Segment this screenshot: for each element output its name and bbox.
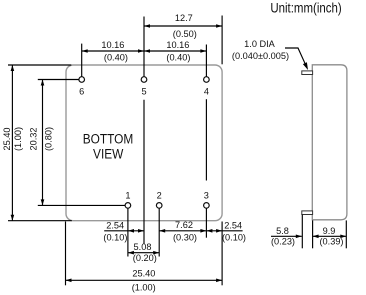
extension line pin2 bottom — [158, 208, 160, 256]
svg-text:2.54: 2.54 — [224, 221, 242, 231]
dimension 20.32 left side — [28, 80, 53, 206]
svg-text:(0.40): (0.40) — [104, 53, 128, 63]
pin 4 — [204, 77, 210, 97]
unit note — [270, 1, 341, 16]
dimension 12.7 top — [144, 13, 222, 39]
svg-text:20.32: 20.32 — [28, 128, 38, 151]
svg-text:10.16: 10.16 — [166, 40, 189, 50]
svg-text:3: 3 — [204, 190, 209, 200]
pin 1 — [125, 190, 131, 208]
svg-text:(1.00): (1.00) — [13, 127, 23, 151]
body outline bottom view — [66, 65, 222, 221]
label BOTTOM VIEW — [83, 131, 134, 162]
label 1.0 DIA with leader — [232, 39, 308, 70]
dimension 25.40 bottom — [66, 269, 223, 293]
extension line pin4 top — [205, 45, 207, 77]
pin 6 — [79, 77, 85, 97]
extension line pin1 left horizontal — [38, 204, 125, 206]
svg-text:25.40: 25.40 — [2, 128, 12, 151]
svg-text:25.40: 25.40 — [132, 269, 155, 279]
svg-text:(0.50): (0.50) — [173, 29, 197, 39]
svg-text:6: 6 — [79, 86, 84, 96]
svg-text:(0.40): (0.40) — [166, 53, 190, 63]
svg-text:(0.30): (0.30) — [173, 233, 197, 243]
dimension 7.62 bottom — [159, 220, 206, 243]
extension line pin3 bottom — [205, 208, 207, 238]
body outline side view — [312, 65, 347, 220]
svg-text:5: 5 — [141, 86, 146, 96]
svg-text:Unit:mm(inch): Unit:mm(inch) — [270, 1, 341, 16]
extension line body right bottom — [221, 222, 223, 286]
pin tab top side view — [302, 71, 313, 75]
svg-text:(0.10): (0.10) — [103, 233, 127, 243]
svg-text:(0.20): (0.20) — [133, 253, 157, 263]
svg-text:9.9: 9.9 — [323, 226, 336, 236]
svg-text:(0.040±0.005): (0.040±0.005) — [232, 51, 289, 61]
extension line pin1 bottom — [127, 208, 129, 256]
extension line body right top — [221, 16, 223, 65]
dimension 25.40 left side — [2, 65, 23, 221]
extension line body bottom left horizontal — [8, 220, 72, 222]
svg-text:VIEW: VIEW — [93, 146, 123, 162]
extension line side body left bottom — [312, 220, 314, 248]
dimension 10.16 left top — [82, 40, 144, 62]
svg-text:BOTTOM: BOTTOM — [83, 131, 134, 147]
dimension 10.16 right top — [144, 40, 206, 62]
wire pin4 to pin3 vertical — [205, 99, 207, 180]
svg-text:(1.00): (1.00) — [132, 283, 156, 293]
dimension 5.8 side — [271, 226, 302, 246]
pin 2 — [156, 190, 162, 208]
extension line side pin left — [301, 215, 303, 249]
extension line body left bottom — [65, 222, 67, 286]
svg-text:1: 1 — [125, 190, 130, 200]
pin 3 — [204, 190, 210, 208]
svg-text:10.16: 10.16 — [101, 40, 124, 50]
dimension 2.54 bottom left — [103, 220, 144, 242]
svg-text:1.0 DIA: 1.0 DIA — [244, 39, 276, 49]
wire pin5 center vertical — [143, 100, 145, 244]
svg-text:(0.10): (0.10) — [222, 232, 246, 242]
pin tab bottom side view — [302, 211, 313, 215]
svg-text:2.54: 2.54 — [106, 220, 124, 230]
svg-text:7.62: 7.62 — [175, 220, 193, 230]
extension line pin5 top — [143, 17, 145, 77]
extension line side body right bottom — [345, 220, 347, 248]
svg-text:2: 2 — [157, 190, 162, 200]
pin 5 — [141, 77, 147, 97]
dimension 9.9 side — [313, 226, 347, 246]
dimension 5.08 bottom — [128, 242, 159, 263]
svg-text:12.7: 12.7 — [175, 13, 193, 23]
extension line pin6 left horizontal — [38, 79, 79, 81]
svg-text:(0.39): (0.39) — [319, 237, 343, 247]
extension line pin6 top — [81, 44, 83, 77]
dimension 2.54 bottom right — [206, 221, 246, 243]
svg-text:5.8: 5.8 — [276, 226, 289, 236]
svg-text:5.08: 5.08 — [134, 242, 152, 252]
extension line body top left horizontal — [8, 64, 71, 66]
svg-text:(0.23): (0.23) — [271, 237, 295, 247]
svg-text:4: 4 — [204, 86, 209, 96]
svg-text:(0.80): (0.80) — [43, 127, 53, 151]
